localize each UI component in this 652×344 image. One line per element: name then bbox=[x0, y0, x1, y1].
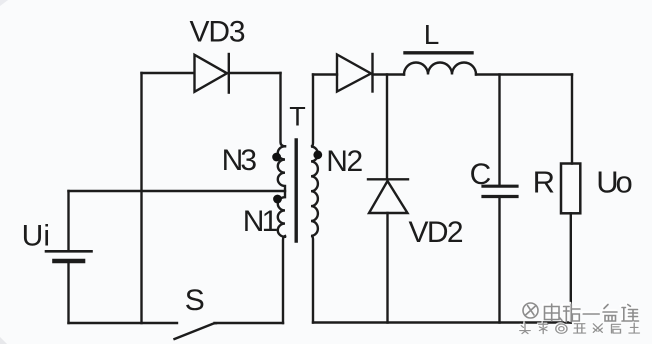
battery Ui bbox=[46, 191, 92, 323]
wire inductor to output corner bbox=[476, 73, 572, 75]
svg-text:VD3: VD3 bbox=[190, 16, 246, 49]
wire R bottom to rail bbox=[570, 213, 572, 322]
watermark line2 (头条@五爻居士) bbox=[519, 322, 640, 334]
svg-text:Uo: Uo bbox=[596, 165, 633, 200]
switch S bbox=[175, 323, 284, 339]
svg-text:R: R bbox=[533, 165, 555, 200]
svg-text:N2: N2 bbox=[326, 145, 363, 178]
transformer secondary winding N2 bbox=[311, 75, 318, 323]
wire VD2 anode to bottom rail bbox=[386, 213, 388, 323]
corner artifact bottom-left bbox=[0, 337, 7, 344]
wire left branch vertical (VD3 anode to bottom rail) bbox=[140, 73, 142, 323]
svg-text:Ui: Ui bbox=[22, 220, 50, 253]
transformer core bar bbox=[295, 140, 298, 241]
wire VD2 branch vertical upper bbox=[386, 75, 388, 180]
svg-text:C: C bbox=[470, 158, 492, 191]
wire primary return vertical to N1 bottom bbox=[283, 236, 285, 323]
wire capacitor branch vertical upper bbox=[498, 75, 500, 185]
diode VD2 bbox=[368, 179, 408, 213]
wire transformer primary top vertical bbox=[281, 73, 286, 146]
diode VD1 bbox=[337, 54, 373, 92]
node dot N1 polarity bbox=[273, 195, 282, 204]
svg-text:N3: N3 bbox=[222, 144, 258, 177]
wire bottom rail left (battery minus to switch) bbox=[69, 322, 178, 324]
svg-text:N1: N1 bbox=[243, 205, 278, 238]
wire VD1 cathode to inductor, VD2 tap bbox=[373, 73, 405, 75]
resistor R bbox=[561, 164, 580, 214]
wire output right vertical to R bbox=[571, 75, 573, 164]
wire capacitor to bottom rail bbox=[498, 198, 500, 323]
wire secondary top to VD1 anode bbox=[313, 73, 337, 75]
capacitor C bbox=[483, 186, 517, 196]
wire top-left from left branch to VD3 anode bbox=[142, 72, 195, 74]
inductor L bbox=[404, 53, 476, 75]
svg-text:T: T bbox=[289, 102, 306, 132]
wire battery positive to winding junction bbox=[69, 190, 286, 192]
svg-text:S: S bbox=[185, 284, 205, 317]
watermark line1 (logo + 电路一点通) bbox=[522, 302, 639, 322]
wire VD3 cathode to transformer top-left corner bbox=[229, 72, 281, 74]
node dot N3 polarity bbox=[272, 153, 281, 162]
wire secondary bottom rail bbox=[313, 321, 571, 323]
svg-text:L: L bbox=[424, 19, 440, 50]
transformer T primary windings N3+N1 bbox=[278, 146, 285, 236]
svg-text:VD2: VD2 bbox=[409, 216, 464, 249]
corner artifact top-left bbox=[0, 0, 8, 6]
node dot N2 polarity bbox=[313, 150, 322, 159]
diode VD3 bbox=[195, 54, 229, 93]
